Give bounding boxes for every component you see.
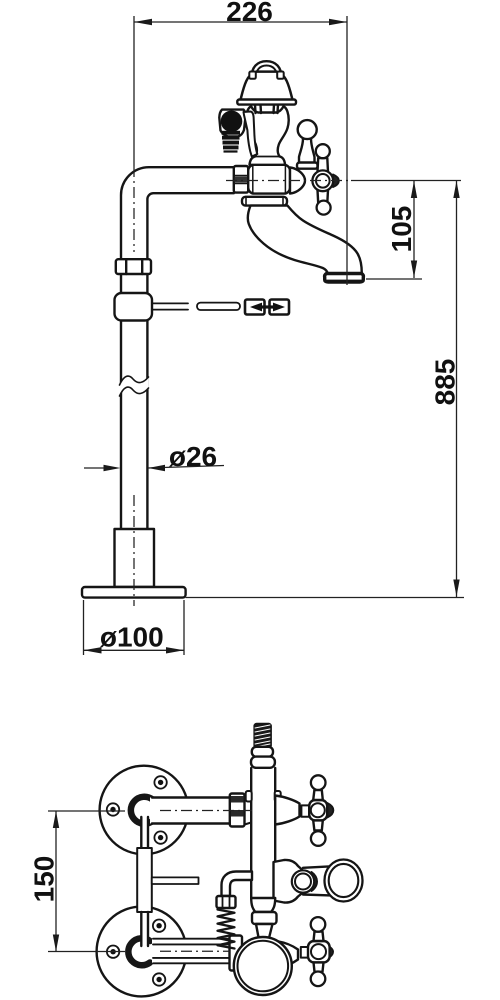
svg-text:885: 885 <box>430 359 461 406</box>
svg-text:ø26: ø26 <box>169 441 217 472</box>
svg-text:150: 150 <box>29 856 60 903</box>
svg-text:105: 105 <box>386 206 417 253</box>
svg-text:226: 226 <box>226 0 273 27</box>
svg-text:ø100: ø100 <box>100 622 164 653</box>
